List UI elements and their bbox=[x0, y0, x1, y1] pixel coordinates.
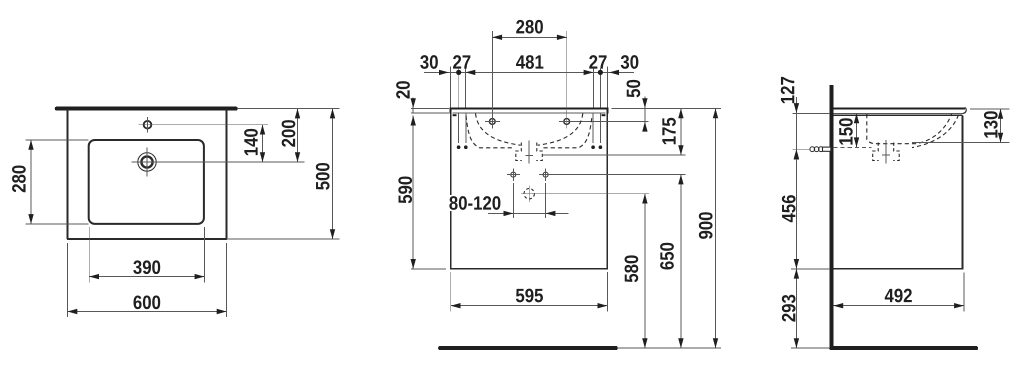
washbasin top view: ceramic outline bbox=[67, 109, 227, 239]
floor extension right bbox=[617, 347, 721, 349]
floor extension left (side) bbox=[791, 347, 830, 349]
tap hole centerline to dim 140 bbox=[139, 124, 269, 126]
left fixing bolts bbox=[457, 114, 468, 150]
dim 30 right arrow bbox=[609, 55, 638, 75]
dim 580 bbox=[625, 194, 648, 348]
chain dim line bbox=[424, 71, 634, 73]
extension 600 left bbox=[67, 243, 69, 317]
dim 50 bbox=[627, 80, 648, 132]
dim 293 bbox=[782, 269, 799, 348]
dim 390 bbox=[89, 260, 204, 279]
dim 650 bbox=[660, 175, 683, 349]
side view: supply valve bbox=[810, 147, 831, 152]
bowl hidden outline outer right bbox=[544, 116, 593, 148]
extension 390 left bbox=[88, 227, 90, 282]
dim 600 bbox=[68, 295, 227, 314]
drain (top view) bbox=[138, 148, 156, 177]
dim 130 extensions bbox=[912, 109, 1010, 143]
drain fitting hidden (front) bbox=[516, 143, 543, 161]
dim 500 bbox=[316, 109, 335, 239]
extension line bottom right bbox=[227, 238, 340, 240]
dim 175 bbox=[662, 109, 683, 156]
bowl hidden outline outer left bbox=[466, 116, 515, 148]
extension cabinet bottom left (side) bbox=[791, 268, 830, 270]
extension cabinet bottom left bbox=[411, 268, 446, 270]
dim 80-120 extensions bbox=[513, 183, 545, 218]
siphon hole right bbox=[539, 168, 685, 181]
extension bowl bottom left bbox=[26, 223, 89, 225]
chain extension lines bbox=[451, 67, 608, 108]
side view: cabinet bbox=[833, 115, 963, 268]
dim 280 extensions bbox=[492, 31, 566, 129]
extension top right of basin bbox=[612, 108, 722, 110]
dim 127 extension bbox=[793, 112, 830, 114]
supply extension left bbox=[793, 148, 811, 150]
side view: floor bbox=[831, 346, 976, 350]
bowl hidden outline inner right bbox=[538, 114, 583, 146]
left faucet hole bbox=[485, 119, 500, 125]
extension 390 right bbox=[203, 227, 205, 282]
tap hole (top view) bbox=[144, 117, 152, 133]
dim 20 extensions bbox=[411, 109, 449, 113]
drain centerline to dims bbox=[132, 161, 305, 163]
dim 280 left bbox=[12, 140, 34, 224]
dim 30 left arrow bbox=[420, 55, 449, 75]
drain centerline (front) bbox=[525, 141, 533, 164]
floor line (front view) bbox=[440, 346, 616, 350]
washbasin top view: inner bowl bbox=[89, 140, 204, 224]
right faucet hole bbox=[559, 119, 648, 125]
dim 80-120 bbox=[447, 195, 569, 216]
side bowl hidden back bbox=[867, 114, 952, 144]
dim 456 bbox=[782, 149, 799, 269]
extension 492 right bbox=[963, 273, 965, 312]
right fixing bolts bbox=[591, 114, 602, 150]
extension bowl top left bbox=[26, 139, 89, 141]
dim 127 bbox=[781, 77, 799, 160]
dim 900 bbox=[699, 109, 718, 349]
dim 140 bbox=[244, 125, 265, 162]
front view: cabinet bbox=[450, 114, 608, 269]
front view: slab underside ledges bbox=[453, 114, 606, 116]
side drain fitting hidden bbox=[873, 143, 900, 161]
dim 20 bbox=[396, 81, 416, 113]
dim 590 bbox=[398, 116, 416, 269]
dim 200 bbox=[282, 109, 301, 162]
front view: basin slab bbox=[449, 109, 608, 114]
dim 492 bbox=[833, 289, 964, 309]
extension 600 right bbox=[226, 243, 228, 317]
side bowl hidden front bbox=[912, 115, 959, 148]
supply hidden line bbox=[833, 147, 871, 149]
dim 280 top bbox=[492, 20, 566, 40]
drain outlet hidden circle bbox=[521, 186, 649, 203]
dim 150 bbox=[839, 113, 859, 147]
bowl hidden outline inner left bbox=[476, 114, 521, 146]
side drain centerline bbox=[882, 140, 890, 163]
dim 27 left dot bbox=[453, 55, 470, 75]
side view: wall bbox=[829, 85, 833, 349]
washbasin top view: wall line bbox=[57, 106, 236, 110]
extension 595 left bbox=[450, 272, 452, 312]
dim 595 bbox=[451, 289, 608, 309]
dim 27 right dot bbox=[589, 55, 606, 75]
extension drain-fitting level bbox=[543, 154, 686, 156]
extension 595 right bbox=[606, 272, 608, 312]
dim 481 arrows bbox=[466, 55, 594, 75]
side view: basin slab bbox=[833, 108, 966, 114]
extension line top right bbox=[237, 108, 340, 110]
dim 130 bbox=[984, 109, 1003, 143]
siphon hole left bbox=[507, 168, 520, 181]
